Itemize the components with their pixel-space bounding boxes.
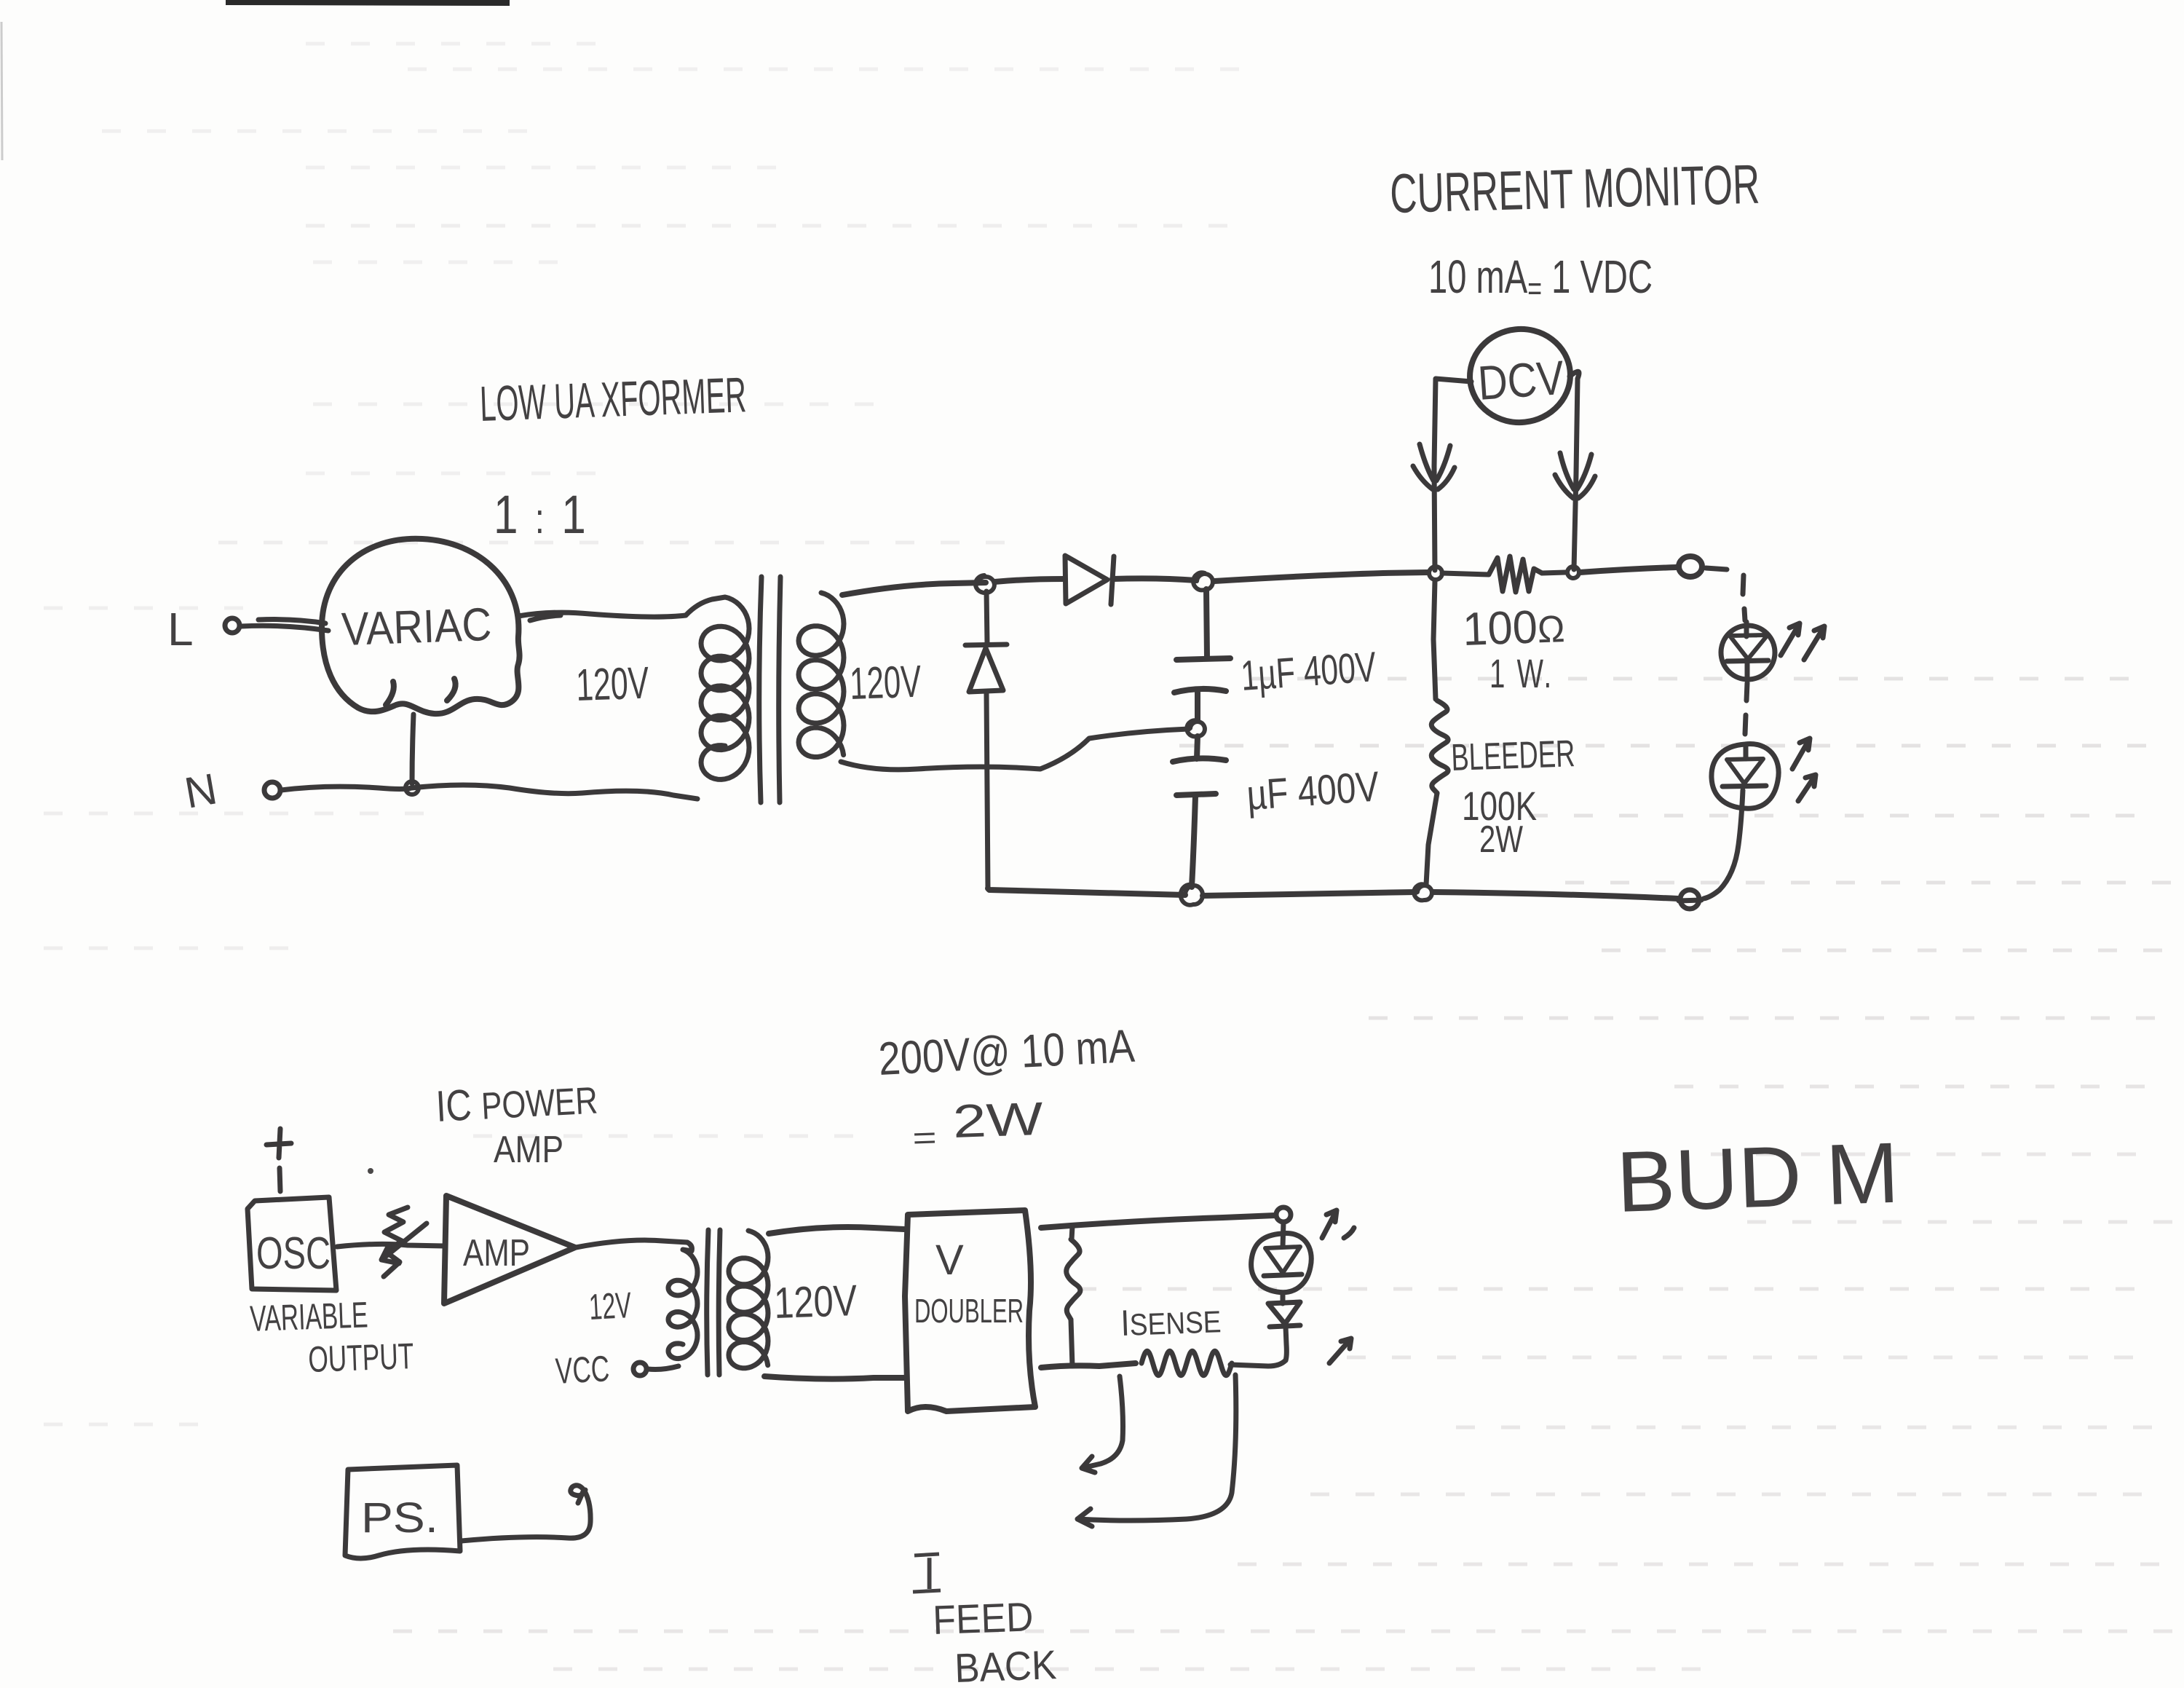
wire dashed to LED D3: [1706, 568, 1745, 620]
svg-text:VARIAC: VARIAC: [341, 598, 492, 655]
junction variac-N: [405, 781, 419, 794]
svg-text:L: L: [167, 603, 194, 655]
label: LOW UA XFORMER: [479, 367, 747, 432]
node N terminal: [181, 764, 280, 818]
wire Isense to LED branch: [1230, 1360, 1286, 1366]
node VCC terminal: [633, 1362, 646, 1376]
svg-text:120V: 120V: [773, 1276, 858, 1328]
wire secondary top to node A: [842, 583, 986, 595]
label: CURRENT MONITOR title: [1389, 154, 1760, 225]
node output terminal top (open circle): [1679, 556, 1702, 577]
node bleeder bottom junction: [1414, 884, 1432, 900]
diode D2 (vertical, cathode up): [965, 591, 1007, 888]
node A junction (diode branch): [976, 575, 994, 593]
LED D3 light arrows: [1781, 623, 1824, 660]
svg-text:OUTPUT: OUTPUT: [307, 1336, 414, 1380]
LED D5 light arrows: [1322, 1210, 1354, 1238]
label ISENSE: [1120, 1299, 1222, 1344]
svg-text:µF 400V: µF 400V: [1245, 762, 1380, 819]
LED D3 indicator: [1721, 622, 1775, 679]
label: 1 : 1 ratio: [494, 484, 588, 545]
wire node A to diode D1: [994, 579, 1064, 582]
node B junction (cap top): [1193, 572, 1213, 590]
transformer T2 primary coil: [668, 1242, 697, 1359]
transformer T1 core: [759, 577, 780, 802]
svg-text:OSC: OSC: [256, 1228, 331, 1279]
wire AMP to transformer T2: [576, 1240, 687, 1247]
svg-text:PS.: PS.: [361, 1494, 438, 1542]
wire N to transformer primary bottom: [281, 785, 697, 799]
wire DCV right lead with arrow: [1555, 371, 1595, 569]
svg-text:1µF 400V: 1µF 400V: [1239, 643, 1377, 700]
svg-text:V: V: [935, 1237, 964, 1284]
amplifier AMP triangle: [444, 1196, 575, 1304]
svg-text:DCV: DCV: [1476, 350, 1566, 410]
diode D6 below LED D5: [1268, 1293, 1300, 1360]
node L terminal: [167, 603, 240, 655]
resistor R2 bleeder 100K 2W: [1431, 701, 1448, 793]
label approx 2W: [911, 1092, 1045, 1156]
wire L to VARIAC: [241, 620, 328, 631]
node terminal above LED D5: [1276, 1207, 1291, 1222]
svg-text:CURRENT MONITOR: CURRENT MONITOR: [1389, 154, 1760, 225]
wire feedback arrow lower: [1077, 1375, 1236, 1526]
diode D1 (horizontal, pointing right): [1065, 556, 1114, 604]
svg-text:DOUBLER: DOUBLER: [914, 1292, 1024, 1330]
wire primary bottom to VCC terminal: [648, 1366, 678, 1370]
LED D4 indicator: [1712, 744, 1779, 809]
variac VARIAC autotransformer blob: [322, 539, 520, 714]
transformer T1 primary coil: [686, 597, 749, 779]
label C2 value uF 400V: [1245, 762, 1380, 819]
node E junction (DCV left tap): [1429, 567, 1442, 580]
wire node B to node E (DCV left tap): [1214, 572, 1428, 581]
svg-text:BLEEDER: BLEEDER: [1450, 733, 1575, 779]
potentiometer wiper arrow on OSC-AMP wire: [381, 1207, 427, 1277]
node C junction (between caps): [1187, 720, 1205, 736]
svg-text:AMP: AMP: [463, 1232, 530, 1274]
node load resistor tap: [1072, 1226, 1072, 1239]
label VCC: [555, 1348, 611, 1392]
svg-text:FEED: FEED: [932, 1593, 1034, 1643]
svg-text:VCC: VCC: [555, 1348, 611, 1392]
wire PS to VCC with arrow: [462, 1486, 590, 1541]
transformer T2 core: [707, 1230, 720, 1375]
transformer T1 secondary coil: [799, 593, 844, 757]
resistor R4 Isense: [1142, 1351, 1232, 1375]
wire V DOUBLER bottom to Isense: [1041, 1363, 1136, 1368]
label VARIABLE OUTPUT: [249, 1294, 414, 1380]
block PS power supply box: [345, 1465, 460, 1558]
wire VARIAC bottom lead: [412, 714, 414, 784]
svg-text:120V: 120V: [849, 657, 922, 709]
capacitor C2 uF 400V: [1173, 736, 1226, 887]
wire node E to bleeder resistor: [1433, 581, 1436, 699]
wire T2 secondary bottom to V DOUBLER: [764, 1376, 904, 1379]
label 120V primary: [575, 658, 650, 711]
wire feedback arrow upper: [1082, 1376, 1123, 1472]
svg-text:BUD M: BUD M: [1615, 1125, 1900, 1231]
wire bottom rail: [988, 888, 1678, 899]
node D junction (cap bottom on rail): [1181, 885, 1203, 905]
label BLEEDER 100K 2W: [1450, 733, 1575, 861]
svg-text:1 W.: 1 W.: [1489, 650, 1554, 696]
wire node F to output terminal: [1580, 567, 1677, 572]
wire VARIAC to transformer primary: [518, 612, 686, 620]
svg-text:12V: 12V: [588, 1285, 633, 1328]
wire V DOUBLER top to LED terminal: [1041, 1215, 1275, 1228]
LED D4 light arrows: [1792, 738, 1816, 801]
node F junction (DCV right tap): [1567, 567, 1579, 578]
label 100 ohm 1 W: [1462, 599, 1565, 696]
wire DCV left lead with arrow: [1413, 379, 1471, 570]
block V DOUBLER box: [905, 1210, 1035, 1411]
svg-text:LOW UA XFORMER: LOW UA XFORMER: [479, 367, 747, 432]
label BUD M signature: [1615, 1125, 1900, 1231]
wire diode D1 to node B: [1112, 578, 1196, 580]
svg-text:2W: 2W: [1479, 819, 1523, 861]
resistor R3 load (vertical): [1067, 1239, 1080, 1320]
LED D5 indicator: [1251, 1222, 1312, 1293]
wire T2 secondary top to V DOUBLER: [769, 1227, 904, 1234]
label 12V: [588, 1285, 633, 1328]
label C1 value 1uF 400V: [1239, 643, 1377, 700]
label 120V bottom transformer: [773, 1276, 858, 1328]
wire transformer secondary bottom to node C: [841, 729, 1189, 770]
arrow near diode D6: [1329, 1338, 1351, 1363]
svg-text:BACK: BACK: [954, 1641, 1057, 1688]
meter U1 DCV voltmeter: [1465, 324, 1575, 427]
wire dashed LED D3 to LED D4: [1745, 683, 1747, 734]
label I FEED BACK: [913, 1549, 1057, 1688]
transformer T2 secondary coil: [729, 1231, 768, 1368]
svg-text:AMP: AMP: [494, 1129, 563, 1171]
resistor R1 100 ohm 1W: [1442, 556, 1565, 592]
label 120V secondary: [849, 657, 922, 709]
label 200V @ 10 mA: [877, 1019, 1136, 1085]
label IC POWER AMP: [435, 1073, 598, 1171]
capacitor C1 1uF 400V: [1174, 589, 1230, 721]
svg-text:VARIABLE: VARIABLE: [249, 1294, 368, 1339]
wire OSC to potentiometer to AMP: [337, 1244, 445, 1247]
oscillator OSC box: [248, 1129, 336, 1290]
label: 10 mA = 1 VDC: [1428, 251, 1653, 307]
wire LED D4 to output terminal bottom: [1704, 790, 1743, 899]
svg-text:120V: 120V: [575, 658, 650, 711]
node output terminal bottom (open circle): [1679, 890, 1701, 909]
